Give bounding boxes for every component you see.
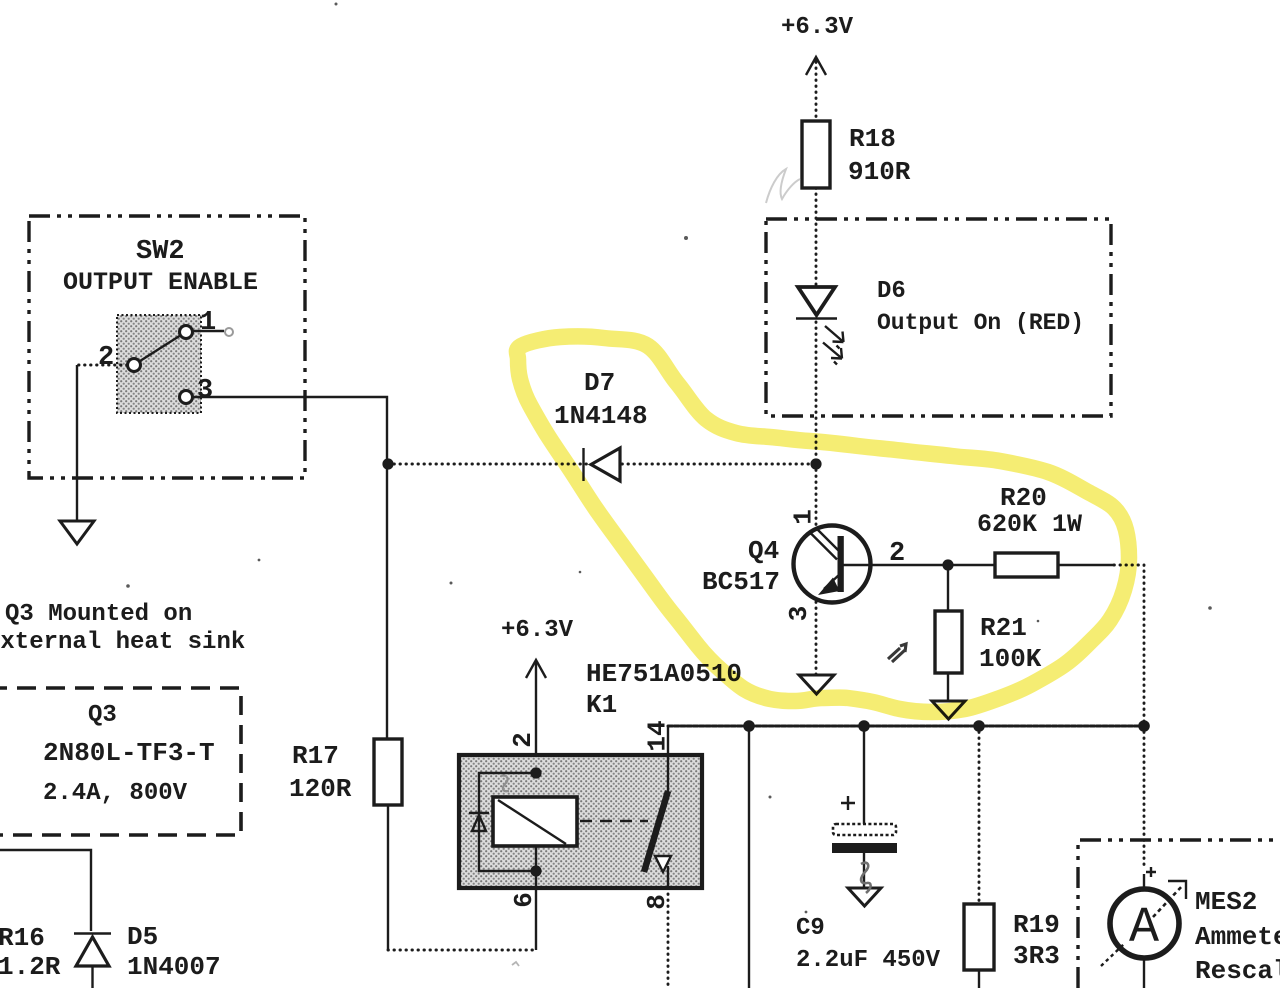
svg-text:OUTPUT ENABLE: OUTPUT ENABLE [63,268,258,297]
resistor R21 [935,611,962,673]
svg-text:1: 1 [200,308,216,338]
svg-text:910R: 910R [848,157,911,187]
wire node to R21 [947,565,949,611]
svg-text:R20: R20 [1000,483,1047,513]
svg-text:R17: R17 [292,741,339,771]
resistor R19 [964,904,994,970]
junction base node [942,559,953,570]
capacitor C9 [832,824,897,853]
wire bus horizontal [668,725,1144,728]
svg-text:2: 2 [508,732,538,748]
wire coil bottom to pin 6 [535,846,537,950]
ammeter plus label [1146,867,1156,877]
svg-text:+6.3V: +6.3V [501,617,574,644]
svg-text:D7: D7 [584,368,615,398]
diode D7 [584,448,621,481]
relay K1 body [459,755,702,888]
svg-text:MES2: MES2 [1195,887,1257,917]
pin 14 label K1 [643,720,673,751]
label D6 Output On (RED) [877,278,1084,336]
svg-text:A: A [1129,900,1159,957]
wire pin 14 to bus [667,726,669,888]
label SW2 OUTPUT ENABLE [63,237,258,297]
svg-text:6: 6 [509,892,539,908]
svg-text:Q3 Mounted on: Q3 Mounted on [5,601,192,628]
label Q4 BC517 [702,536,780,597]
svg-text:620K 1W: 620K 1W [977,510,1082,539]
svg-text:+6.3V: +6.3V [781,14,854,41]
svg-text:3: 3 [784,606,814,622]
junction relay coil bottom [530,865,541,876]
junction relay coil top [530,767,541,778]
resistor R18 [802,121,830,188]
pin 3 label Q4 [784,606,814,622]
svg-text:Rescaled: Rescaled [1195,956,1280,986]
resistor R16 (edge, partial) [0,923,61,982]
svg-text:2.4A, 800V: 2.4A, 800V [43,780,188,807]
svg-text:SW2: SW2 [136,237,185,267]
svg-text:R19: R19 [1013,910,1060,940]
svg-text:2: 2 [98,343,114,373]
junction bus right rail [1138,720,1150,732]
pen squiggle at C9 ground [861,863,871,893]
highlighter mark (yellow) [517,336,1129,712]
label R18 value [848,124,911,187]
pin 8 label K1 [642,894,672,910]
label D7 1N4148 [554,368,648,431]
ammeter MES2 [1110,889,1179,958]
svg-text:100K: 100K [979,644,1042,674]
pin 2 label Q4 [889,539,905,569]
pencil smudge near R18 [766,169,800,203]
svg-text:Ammeter: Ammeter [1195,922,1280,952]
wire D6 to node [815,322,818,464]
resistor R20 [995,553,1058,577]
pin 3 label SW2 [197,376,213,406]
faint mark below relay [512,962,519,966]
wire Q4 base to node [843,564,948,566]
svg-text:BC517: BC517 [702,567,780,597]
junction node at SW2 branch [382,458,393,469]
pen scribble near R21 [888,644,906,662]
dashed box around Q3 [0,688,241,835]
wire C9 to ground [863,853,865,888]
svg-text:R21: R21 [980,613,1027,643]
node +6.3V (top rail label) [781,14,854,41]
wire bus to R19 [978,726,981,904]
dash-dot box around D6 [766,219,1111,416]
capacitor C9 polarity plus [841,796,855,810]
wire relay freewheel branch [479,773,536,871]
wire node to Q4 collector [815,464,818,528]
svg-text:2N80L-TF3-T: 2N80L-TF3-T [43,738,215,768]
svg-text:1.2R: 1.2R [0,952,61,982]
wire Q3 to D5 [0,850,91,931]
label C9 2.2uF 450V [796,915,941,974]
wire rail to ammeter [1143,726,1146,888]
switch SW2 body [117,315,201,413]
wire ammeter down [1143,958,1145,988]
dash-dot box around SW2 [29,216,305,478]
wire bus left down [748,726,750,988]
svg-text:R16: R16 [0,923,45,953]
node +6.3V relay label [501,617,574,644]
wire pin 8 down [667,888,670,988]
relay coil K1 [493,797,577,846]
wire Q4 emitter to ground [815,602,818,675]
svg-text:3: 3 [197,376,213,406]
label MES2 Ammeter Rescaled [1195,887,1280,986]
svg-text:D6: D6 [877,278,906,305]
label Q3 mounting note [0,601,245,656]
wire node to R20 [948,564,995,566]
svg-text:1N4007: 1N4007 [127,952,221,982]
pin 6 label K1 [509,892,539,908]
pen squiggle near pin2 [501,776,509,792]
label Q3 2N80L-TF3-T 2.4A 800V [43,702,215,807]
resistor R17 [374,739,402,805]
diode D5 [74,934,111,988]
svg-text:1N4148: 1N4148 [554,401,648,431]
label R21 100K [979,613,1042,674]
wire R17 to relay pin6 [388,805,534,950]
svg-text:1: 1 [789,509,819,525]
ground below R21 [932,701,965,719]
svg-text:2.2uF 450V: 2.2uF 450V [796,947,941,974]
pin 1 label Q4 [789,509,819,525]
label D5 1N4007 [127,922,221,982]
ground below SW2 [60,521,94,544]
label R17 value [289,741,352,804]
diode freewheel in relay [469,813,489,831]
wire R21 to ground [947,673,949,701]
junction bus R19 [973,720,985,732]
svg-text:K1: K1 [586,690,617,720]
wire bus to C9 [863,726,865,824]
pin 2 label K1 [508,732,538,748]
ground below Q4 [799,675,834,694]
wire R20 to right rail [1058,565,1144,726]
pin 1 label SW2 [200,308,216,338]
svg-text:external heat sink: external heat sink [0,629,245,656]
svg-text:D5: D5 [127,922,158,952]
wire SW2 pin3 to node and down to R17 [193,397,387,739]
junction bus C9 [858,720,870,732]
svg-text:3R3: 3R3 [1013,941,1060,971]
junction node at D6/D7/Q4 [810,458,821,469]
scan specks [126,3,1212,914]
svg-text:Q4: Q4 [748,536,779,566]
ground below C9 [848,888,881,906]
dashed actuator link [580,820,648,822]
label R19 3R3 [1013,910,1060,971]
svg-text:Output On (RED): Output On (RED) [877,310,1084,336]
power arrow +6.3V top [806,57,826,121]
transistor Q4 [794,526,871,603]
pin 2 label SW2 [98,343,114,373]
power arrow +6.3V relay [526,660,546,797]
ammeter adjust arrow [1101,881,1186,966]
dash-dot box around MES2 [1078,840,1280,988]
svg-text:R18: R18 [849,124,896,154]
relay switch lever [644,791,671,872]
wire D7 horizontal net [388,463,816,466]
wire R18 to D6 [815,188,818,288]
wire SW2 pin2 to ground [77,365,127,521]
svg-text:120R: 120R [289,774,352,804]
junction bus left [743,720,755,732]
label HE751A0510 K1 [586,659,742,720]
wire R19 down [978,970,980,988]
label R20 620K 1W [977,483,1082,539]
LED D6 [796,287,844,365]
switch SW2 contacts and lever [128,326,234,404]
svg-text:C9: C9 [796,915,825,942]
svg-text:Q3: Q3 [88,702,117,729]
